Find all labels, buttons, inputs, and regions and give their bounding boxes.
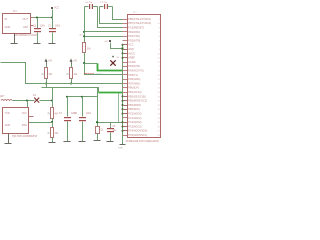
svg-text:GND: GND [128,48,134,51]
wire C2 to ground [52,33,54,43]
wire cap net horizontal [68,96,98,98]
capacitor C4 [79,117,86,118]
bus junction p22 [122,108,124,110]
junction R2 on net [45,83,47,85]
IC2 pin stub row 8 [123,49,128,51]
svg-text:PD2(INT0): PD2(INT0) [128,39,140,42]
bus junction p9 [122,52,124,54]
junction at C1 top [36,17,38,19]
wire C5 to ground [110,133,112,142]
svg-text:PD0(RXD): PD0(RXD) [128,31,140,34]
capacitor C3 [64,117,71,118]
ground below C1 [37,43,39,44]
wire bus junction p20 stub [123,100,128,102]
svg-text:C7 22p: C7 22p [100,2,108,4]
junction at divider top [51,100,53,102]
svg-text:PC0(ADC0): PC0(ADC0) [128,113,141,116]
svg-text:C6 22p: C6 22p [85,2,93,4]
svg-text:PB1(OC1A): PB1(OC1A) [128,91,141,94]
IC2 pin stub row 28 [123,135,128,137]
svg-text:PC6(/RESET): PC6(/RESET) [128,27,144,30]
wire R3 bottom [71,79,73,84]
IC2 pin stub row 18 [123,92,128,94]
svg-text:100n: 100n [55,25,61,27]
wire C3 drop [67,97,69,117]
wire stub R2 to lower net [46,84,48,88]
wire R2 bottom [46,79,48,84]
IC2 pin stub row 26 [123,126,128,128]
svg-text:PB7(XTAL2/TOSC2): PB7(XTAL2/TOSC2) [128,22,151,25]
wire bus junction p27 stub [123,130,128,132]
ground below C5 [110,141,112,143]
wire C3 to ground [67,122,69,142]
junction at C3 [66,96,68,98]
junction at C2 top [51,17,53,19]
svg-text:MC33269D-5.0 DPAK: MC33269D-5.0 DPAK [15,34,39,37]
IC2 pin stub row 22 [123,109,128,111]
resistor R6 [51,108,54,119]
svg-text:PB2(SS/OC1B): PB2(SS/OC1B) [128,95,145,98]
IC2 pin stub row 9 [123,53,128,55]
svg-text:PB5(SCK): PB5(SCK) [128,108,140,111]
IC2 pin stub row 11 [123,62,128,64]
svg-text:PB4(MISO): PB4(MISO) [128,104,141,107]
svg-text:PB3(MOSI/OC2): PB3(MOSI/OC2) [128,100,147,103]
junction above module [26,100,28,102]
bus junction p10 [122,57,124,59]
capacitor C1 [34,28,41,29]
wire lower net [42,88,99,93]
wire bus junction p7 stub [123,44,128,46]
IC2 pin stub row 19 [123,96,128,98]
svg-text:AGND: AGND [128,61,135,64]
svg-text:+5V: +5V [73,61,78,63]
svg-text:VCC: VCC [128,44,133,47]
IC2 pin stub row 5 [123,36,128,38]
junction on AVCC tap [83,35,85,37]
capacitor C2 [49,28,56,29]
IC1 pin 4 stub [31,25,34,27]
wire net from left edge [1,63,123,84]
inductor L1 [1,99,12,100]
wire lower net to IC highlighted [99,92,123,94]
wire junction into module [27,101,29,108]
wire down to R5 [84,32,86,43]
voltage regulator IC1 body [3,14,31,34]
wire bus junction p19 stub [123,96,128,98]
wire bus junction p22 stub [123,109,128,111]
wire divider mid [52,119,54,128]
IC2 pin stub row 24 [123,117,128,119]
wire C5 drop [110,123,112,129]
resistor R2 [46,65,48,68]
bus junction p27 [122,130,124,132]
svg-text:PC4(ADC4/SDA): PC4(ADC4/SDA) [128,130,147,133]
IC2 pin stub row 27 [123,130,128,132]
svg-text:PC2(ADC2): PC2(ADC2) [128,121,141,124]
resistor R7 [51,128,54,138]
svg-text:PD3(INT1): PD3(INT1) [128,65,140,68]
svg-text:ADJ: ADJ [23,25,29,29]
junction R3 on net [70,83,72,85]
bus junction p23 [122,113,124,115]
ground below IC1 [14,34,16,44]
wire bus junction p8 stub [123,49,128,51]
wire bus junction p26 stub [123,126,128,128]
svg-text:GND: GND [118,147,123,149]
IC2 pin stub row 7 [123,44,128,46]
svg-text:GND: GND [5,124,11,127]
wire secondary vertical [118,93,120,123]
svg-text:PD7(AIN1): PD7(AIN1) [128,82,140,85]
junction XTAL1 net [83,62,85,64]
IC2 pin stub row 17 [123,87,128,89]
svg-text:HM-TRP-433/868MHZ: HM-TRP-433/868MHZ [12,135,37,138]
IC2 pin stub row 6 [123,40,128,42]
svg-text:VCC: VCC [22,112,27,115]
wire RESET vertical [84,64,86,75]
wire bus junction p9 stub [123,53,128,55]
crystal Q1 body [96,127,100,134]
resistor R3 [71,65,73,68]
svg-text:ANT: ANT [0,95,5,98]
IC2 pin stub row 21 [123,105,128,107]
wire module to divider [29,122,53,124]
svg-text:RESET: RESET [84,72,94,76]
svg-text:PB0(ICP): PB0(ICP) [128,87,139,90]
svg-text:100n: 100n [86,113,92,115]
wire bus junction p21 stub [123,105,128,107]
svg-text:PC3(ADC3): PC3(ADC3) [128,125,141,128]
bus junction p25 [122,121,124,123]
svg-text:PB6(XTAL1/TOSC1): PB6(XTAL1/TOSC1) [128,18,151,21]
resistor R5 [83,43,86,53]
svg-text:PD6(AIN0): PD6(AIN0) [128,78,140,81]
IC2 pin stub row 4 [123,31,128,33]
svg-text:AREF: AREF [128,57,135,60]
wire bus junction p23 stub [123,113,128,115]
wire +5V to bus [111,43,123,49]
wire C2 drop [52,18,54,29]
bus junction p8 [122,48,124,50]
diode D1 [34,98,39,103]
svg-text:AVCC: AVCC [128,52,135,55]
ground below C2 [52,43,54,44]
capacitor C5 [107,128,114,129]
wire net left of C6 down to pin row3 [85,7,123,32]
svg-text:PD1(TXD): PD1(TXD) [128,35,140,38]
wire antenna net [13,100,35,102]
wire R5 to junction [84,53,86,64]
IC2 pin stub row 14 [123,74,128,76]
wire net to pin row1 [100,7,123,24]
ground below bus [122,144,124,145]
bus junction p19 [122,95,124,97]
wire C7 left [100,6,104,8]
wire AVCC row4 [85,36,123,38]
SJ1 pin mark [112,56,114,58]
wire C1 to ground [37,33,39,43]
svg-text:ATMEGA8-16PI (MEGA8-P): ATMEGA8-16PI (MEGA8-P) [126,139,160,143]
svg-text:VCC: VCC [54,6,59,9]
svg-text:PD5(T1): PD5(T1) [128,74,138,77]
IC2 pin stub row 16 [123,83,128,85]
svg-text:IC1: IC1 [13,10,17,13]
svg-text:IN: IN [5,17,8,21]
wire C6 left [85,6,89,8]
IC2 pin stub row 12 [123,66,128,68]
ground below R7 [52,142,54,144]
svg-text:OUT: OUT [23,17,29,21]
bus junction p7 [122,44,124,46]
wire C6 right [93,6,98,8]
bus junction p20 [122,100,124,102]
IC2 pin stub row 3 [123,27,128,29]
ground below Q1 [97,140,99,142]
wire bus junction p10 stub [123,57,128,59]
wire diode to divider [40,100,53,102]
svg-text:TXD: TXD [5,112,10,115]
junction crystal net with AREF net [96,121,98,123]
IC2 pin stub row 25 [123,122,128,124]
wire Q1 to ground [97,134,99,141]
ground below C3 [67,141,69,143]
supply symbol VCC [51,7,53,9]
wire ground bus at IC [122,45,124,144]
wire C4 to ground [82,122,84,142]
svg-text:PD4(XCK/T0): PD4(XCK/T0) [128,70,143,73]
wire AREF net [98,122,123,124]
IC2 pin stub row 20 [123,100,128,102]
wire XTAL1 net [85,63,98,65]
bus junction p26 [122,126,124,128]
capacitor C6 [89,4,90,9]
wire crystal vertical [97,88,99,127]
wire XTAL1 to IC highlighted [98,64,123,71]
solder jumper SJ1 cross [110,60,115,65]
svg-text:RXD: RXD [22,124,27,127]
wire R7 to ground [52,138,54,143]
wire VCC output net [34,17,53,19]
ground below U2 [8,134,10,144]
IC2 pin stub row 2 [123,23,128,25]
svg-text:+5V: +5V [104,41,108,43]
IC1 output pin stub [31,17,34,19]
wire bus junction p25 stub [123,122,128,124]
wire net to XTAL pin row0 [113,7,123,20]
svg-text:PC1(ADC1): PC1(ADC1) [128,117,141,120]
junction divider mid [51,121,53,123]
svg-text:1M: 1M [87,48,90,51]
junction on XTAL2 net [83,31,85,33]
svg-text:+5V: +5V [48,61,53,63]
radio module U2 body [3,108,29,134]
supply arrow above R3 [70,59,73,62]
IC2 pin stub row 23 [123,113,128,115]
svg-text:GND: GND [5,25,11,29]
wire C7 right [108,6,113,8]
IC2 pin stub row 13 [123,70,128,72]
supply symbol +5V at IC [109,40,111,42]
svg-text:+5V: +5V [79,34,83,36]
wire divider top vertical [52,88,54,108]
ground below C4 [82,141,84,143]
junction at C4 [81,96,83,98]
microcontroller IC2 body [128,15,161,138]
IC2 pin stub row 15 [123,79,128,81]
capacitor C7 [104,4,105,9]
wire up to VCC symbol [52,10,54,18]
U2 pin stub [29,116,34,118]
IC2 pin stub row 1 [123,19,128,21]
svg-text:PC5(ADC5/SCL): PC5(ADC5/SCL) [128,134,147,137]
supply arrow above R2 [45,59,48,62]
bus junction p21 [122,104,124,106]
wire C4 drop [82,97,84,117]
wire RESET to IC [85,74,123,76]
wire net to pin row2 [98,7,123,28]
svg-text:100n: 100n [40,25,46,27]
wire C1 drop [37,18,39,29]
junction on bus at supply feed [122,47,124,49]
IC2 pin stub row 10 [123,57,128,59]
